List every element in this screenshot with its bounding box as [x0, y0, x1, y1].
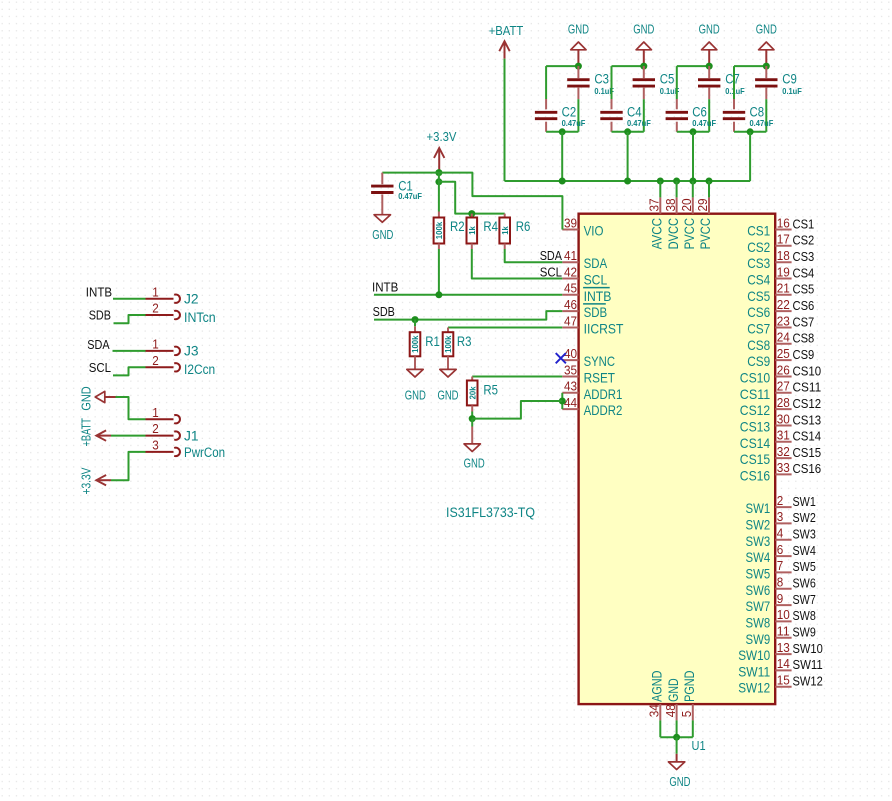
- power symbol +BATT (left): [79, 418, 111, 447]
- junction top of C7: [706, 63, 713, 70]
- power symbol +3.3V: [427, 130, 457, 172]
- net label CS16: [793, 462, 822, 476]
- net label CS11: [793, 381, 822, 395]
- svg-text:CS12: CS12: [740, 402, 771, 418]
- svg-text:13: 13: [777, 641, 790, 655]
- U1 pin 10 SW8: [746, 608, 792, 630]
- svg-text:SW11: SW11: [738, 663, 770, 679]
- svg-text:20: 20: [680, 198, 694, 211]
- svg-text:GND: GND: [633, 22, 654, 36]
- net label SW4: [793, 544, 816, 558]
- svg-text:C9: C9: [782, 72, 797, 87]
- svg-text:30: 30: [777, 412, 790, 426]
- C7 reference label: [725, 72, 740, 87]
- net label SW5: [793, 560, 816, 574]
- wire R2 bottom to INTB: [438, 244, 440, 295]
- svg-text:SDA: SDA: [87, 338, 110, 352]
- svg-text:100k: 100k: [443, 335, 453, 353]
- svg-text:11: 11: [777, 625, 790, 639]
- C6 reference label: [692, 104, 707, 119]
- U1 pin 25 CS9: [747, 347, 791, 369]
- C9 reference label: [782, 72, 797, 87]
- connector J1 pin 1: [146, 406, 180, 424]
- wire bus to pin 29: [708, 181, 710, 197]
- svg-text:+3.3V: +3.3V: [79, 467, 93, 494]
- svg-text:C5: C5: [660, 72, 675, 87]
- svg-text:2: 2: [152, 354, 159, 368]
- wire PGND down: [692, 720, 694, 737]
- svg-text:GND: GND: [464, 457, 485, 471]
- wire bus to pin 38: [676, 181, 678, 197]
- wire C3 bottom: [577, 99, 579, 132]
- svg-text:SW12: SW12: [738, 680, 770, 696]
- svg-text:100k: 100k: [434, 222, 444, 240]
- wire C6 top: [676, 66, 678, 99]
- net label CS2: [793, 234, 815, 248]
- wire R5 to ADDR1/ADDR2: [472, 401, 562, 419]
- svg-text:31: 31: [777, 429, 790, 443]
- connector J1 pin 2: [146, 422, 180, 440]
- net label SW7: [793, 593, 816, 607]
- ground symbol below C1: [372, 215, 393, 242]
- wire bottom rail C4-C5: [612, 131, 644, 133]
- junction bus x=692.9: [689, 178, 696, 185]
- capacitor C8: [723, 99, 745, 132]
- svg-text:ADDR2: ADDR2: [584, 402, 623, 418]
- junction R5 bottom: [469, 415, 476, 422]
- wire R5 bottom: [471, 405, 473, 418]
- net label CS5: [793, 283, 815, 297]
- svg-text:SCL: SCL: [89, 361, 111, 375]
- wire top rail C2-C3: [546, 65, 578, 67]
- svg-text:2: 2: [152, 302, 159, 316]
- C9 value label 0.1uF: [782, 86, 802, 96]
- C5 reference label: [660, 72, 675, 87]
- junction bus x=562.25: [559, 178, 566, 185]
- ground symbol below U1: [668, 754, 690, 789]
- capacitor C9: [755, 66, 777, 99]
- svg-text:44: 44: [564, 396, 577, 410]
- wire +3.3V to C1: [382, 172, 439, 174]
- wire R6 to SDA pin 41: [505, 244, 563, 263]
- svg-text:CS10: CS10: [740, 370, 771, 386]
- svg-text:2: 2: [777, 494, 784, 508]
- junction top of C3: [575, 63, 582, 70]
- svg-text:C7: C7: [725, 72, 740, 87]
- capacitor C1: [371, 173, 393, 215]
- svg-text:SDA: SDA: [540, 249, 563, 263]
- U1 reference label: [692, 738, 706, 753]
- svg-text:2: 2: [152, 422, 159, 436]
- wire J1.2 to +BATT: [111, 435, 146, 437]
- net label SCL (mid): [540, 266, 562, 280]
- capacitor C2: [535, 99, 557, 132]
- svg-text:+BATT: +BATT: [79, 418, 93, 447]
- svg-text:35: 35: [564, 363, 577, 377]
- U1 pin 48 GND: [664, 678, 681, 720]
- junction bottom of pair C4/C5: [624, 128, 631, 135]
- junction +3.3V node B: [435, 178, 442, 185]
- svg-text:SW6: SW6: [746, 582, 771, 598]
- net label CS6: [793, 299, 815, 313]
- svg-text:PVCC: PVCC: [697, 218, 713, 249]
- svg-text:CS1: CS1: [793, 217, 815, 231]
- net label CS14: [793, 430, 822, 444]
- svg-text:9: 9: [777, 592, 784, 606]
- svg-text:INTB: INTB: [372, 280, 398, 294]
- svg-text:J2: J2: [184, 291, 199, 306]
- U1 pin 40 SYNC: [562, 347, 615, 369]
- svg-text:GND: GND: [372, 228, 393, 242]
- capacitor C7: [698, 66, 720, 99]
- svg-text:4: 4: [777, 527, 784, 541]
- svg-text:17: 17: [777, 233, 790, 247]
- U1 pin 16 CS1: [747, 216, 791, 238]
- U1 pin 18 CS3: [747, 249, 791, 271]
- wire +BATT bus horizontal: [505, 180, 751, 182]
- resistor R6: [499, 214, 510, 244]
- GND power symbol above C5: [633, 22, 654, 66]
- svg-text:7: 7: [777, 559, 784, 573]
- svg-text:23: 23: [777, 314, 790, 328]
- svg-text:8: 8: [777, 576, 784, 590]
- wire SDA to J3.1: [113, 350, 146, 352]
- wire J1.1 to GND: [116, 397, 146, 419]
- svg-text:48: 48: [664, 704, 678, 717]
- svg-text:CS13: CS13: [793, 413, 822, 427]
- svg-text:1k: 1k: [467, 226, 477, 235]
- svg-text:27: 27: [777, 380, 790, 394]
- junction R4 top: [468, 210, 475, 217]
- svg-text:1: 1: [152, 406, 159, 420]
- U1 pin 35 RSET: [562, 363, 615, 385]
- connector J2 pin 1: [146, 285, 180, 303]
- U1 pin 39 VIO: [562, 216, 603, 238]
- svg-text:SDB: SDB: [373, 305, 395, 319]
- U1 pin 41 SDA: [562, 249, 607, 271]
- connector J3 pin 1: [146, 338, 180, 356]
- svg-text:SCL: SCL: [540, 266, 562, 280]
- svg-text:CS9: CS9: [793, 348, 815, 362]
- U1 pin 32 CS15: [740, 445, 792, 467]
- svg-text:SW4: SW4: [746, 549, 771, 565]
- capacitor C5: [633, 66, 655, 99]
- wire +3.3V down to R2: [438, 173, 440, 212]
- C3 value label 0.1uF: [594, 86, 614, 96]
- svg-text:GND: GND: [669, 775, 690, 789]
- svg-text:100k: 100k: [410, 335, 420, 353]
- wire drop C8/C9 to +BATT bus: [749, 132, 751, 181]
- connector J3 pin 2: [146, 354, 180, 372]
- wire drop C4/C5 to +BATT bus: [627, 132, 629, 181]
- svg-text:CS4: CS4: [747, 272, 770, 288]
- J3 value label I2Ccn: [184, 362, 215, 377]
- svg-text:29: 29: [696, 198, 710, 211]
- U1 pin 15 SW12: [738, 674, 791, 696]
- power symbol +BATT: [489, 24, 524, 59]
- net label SW11: [793, 658, 823, 672]
- svg-text:18: 18: [777, 249, 790, 263]
- svg-text:0.1uF: 0.1uF: [782, 86, 802, 96]
- svg-text:SW2: SW2: [793, 511, 816, 525]
- junction SDB/R1: [412, 316, 419, 323]
- svg-text:25: 25: [777, 347, 790, 361]
- U1 pin 23 CS7: [747, 314, 791, 336]
- R4 reference label: [483, 219, 498, 234]
- svg-text:SW1: SW1: [793, 495, 816, 509]
- svg-text:CS3: CS3: [747, 255, 770, 271]
- U1 pin 20 PVCC: [680, 197, 697, 249]
- svg-text:PVCC: PVCC: [681, 218, 697, 249]
- wire bottom rail C6-C7: [677, 131, 709, 133]
- net label CS3: [793, 250, 815, 264]
- svg-text:GND: GND: [568, 22, 589, 36]
- U1 pin 2 SW1: [746, 494, 792, 516]
- svg-text:CS5: CS5: [793, 283, 815, 297]
- wire bus to pin 37: [659, 181, 661, 197]
- svg-text:SDB: SDB: [89, 309, 111, 323]
- svg-text:10: 10: [777, 608, 790, 622]
- net label CS12: [793, 397, 822, 411]
- wire INTB to J2.1: [113, 298, 146, 300]
- op-amp U1 IS31FL3733-TQ body: [579, 214, 776, 704]
- U1 pin 4 SW3: [746, 527, 792, 549]
- U1 pin 45 INTB: [562, 282, 611, 304]
- svg-text:J3: J3: [184, 344, 199, 359]
- U1 pin 24 CS8: [747, 331, 791, 353]
- svg-text:SW10: SW10: [793, 642, 823, 656]
- resistor R3: [443, 328, 454, 357]
- wire top rail C4-C5: [612, 65, 644, 67]
- net label SW12: [793, 675, 823, 689]
- capacitor C4: [600, 99, 622, 132]
- svg-text:IICRST: IICRST: [584, 321, 624, 337]
- J2 value label INTcn: [184, 310, 216, 325]
- C4 value label 0.47uF: [627, 118, 651, 128]
- U1 pin 27 CS11: [740, 380, 792, 402]
- net label SW2: [793, 511, 816, 525]
- connector J2 pin 2: [146, 302, 180, 320]
- net label SW8: [793, 609, 816, 623]
- svg-text:SDA: SDA: [584, 255, 608, 271]
- svg-text:GND: GND: [405, 389, 426, 403]
- svg-text:CS1: CS1: [747, 223, 770, 239]
- svg-text:24: 24: [777, 331, 790, 345]
- U1 pin 3 SW2: [746, 510, 792, 532]
- U1 pin 9 SW7: [746, 592, 792, 614]
- U1 pin 31 CS14: [740, 429, 792, 451]
- svg-text:GND: GND: [756, 22, 777, 36]
- svg-text:RSET: RSET: [584, 370, 616, 386]
- wire ADDR tie vertical: [561, 393, 563, 409]
- svg-text:J1: J1: [184, 428, 199, 443]
- svg-text:38: 38: [664, 198, 678, 211]
- svg-text:CS5: CS5: [747, 288, 770, 304]
- svg-text:CS13: CS13: [740, 419, 771, 435]
- svg-text:CS11: CS11: [740, 386, 771, 402]
- svg-text:SYNC: SYNC: [584, 353, 615, 369]
- svg-text:R2: R2: [450, 219, 465, 234]
- wire C4 top: [611, 66, 613, 99]
- J3 reference label: [184, 344, 199, 359]
- wire SDB to J2.2: [114, 315, 146, 323]
- svg-text:CS6: CS6: [747, 304, 770, 320]
- U1 pin 11 SW9: [746, 625, 792, 647]
- svg-text:1k: 1k: [500, 226, 510, 235]
- C8 value label 0.47uF: [750, 118, 774, 128]
- resistor R1: [410, 320, 421, 357]
- svg-text:CS7: CS7: [747, 321, 770, 337]
- capacitor C3: [567, 66, 589, 99]
- net label CS13: [793, 413, 822, 427]
- svg-text:22: 22: [777, 298, 790, 312]
- svg-text:CS7: CS7: [793, 315, 815, 329]
- svg-text:CS14: CS14: [793, 430, 822, 444]
- net label SW9: [793, 626, 816, 640]
- svg-text:3: 3: [777, 510, 784, 524]
- svg-text:3: 3: [152, 439, 159, 453]
- power symbol +3.3V (left): [79, 467, 111, 494]
- svg-text:28: 28: [777, 396, 790, 410]
- J2 reference label: [184, 291, 199, 306]
- resistor R5: [467, 377, 478, 406]
- U1 pin 34 AGND: [648, 671, 665, 721]
- capacitor C6: [666, 99, 688, 132]
- wire R4 to SCL pin 42: [472, 244, 563, 279]
- junction top of C5: [640, 63, 647, 70]
- wire top rail C8-C9: [734, 65, 766, 67]
- wire INTB to pin 45: [374, 294, 562, 296]
- net label CS8: [793, 332, 815, 346]
- svg-text:SW3: SW3: [793, 528, 816, 542]
- svg-text:20k: 20k: [467, 386, 477, 399]
- svg-text:INTcn: INTcn: [184, 310, 216, 325]
- U1 pin 13 SW10: [738, 641, 791, 663]
- wire AGND down: [659, 720, 661, 737]
- svg-text:32: 32: [777, 445, 790, 459]
- svg-text:PwrCon: PwrCon: [184, 445, 225, 460]
- svg-text:42: 42: [564, 265, 577, 279]
- svg-text:SW12: SW12: [793, 675, 823, 689]
- svg-text:CS16: CS16: [793, 462, 822, 476]
- resistor R4: [467, 214, 478, 244]
- C6 value label 0.47uF: [692, 118, 716, 128]
- U1 pin 37 AVCC: [648, 197, 665, 249]
- R3 reference label: [457, 334, 472, 349]
- svg-text:0.47uF: 0.47uF: [398, 191, 422, 201]
- svg-text:34: 34: [648, 704, 662, 717]
- net label INTB (mid): [372, 280, 398, 294]
- U1 pin 8 SW6: [746, 576, 792, 598]
- svg-text:CS10: CS10: [793, 364, 822, 378]
- svg-text:CS11: CS11: [793, 381, 822, 395]
- svg-text:SW8: SW8: [746, 614, 771, 630]
- svg-text:41: 41: [564, 249, 577, 263]
- ground symbol below R3: [437, 356, 458, 402]
- svg-text:45: 45: [564, 282, 577, 296]
- net label CS1: [793, 217, 815, 231]
- junction top of C9: [763, 63, 770, 70]
- wire J1.3 to +3.3V: [111, 452, 146, 480]
- wire bottom gnd tie: [660, 736, 693, 738]
- svg-text:33: 33: [777, 461, 790, 475]
- svg-text:+BATT: +BATT: [489, 24, 524, 38]
- U1 pin 28 CS12: [740, 396, 792, 418]
- J1 value label PwrCon: [184, 445, 225, 460]
- C1 reference label: [398, 179, 413, 194]
- svg-text:SW7: SW7: [746, 598, 771, 614]
- net label SW6: [793, 577, 816, 591]
- svg-text:0.47uF: 0.47uF: [692, 118, 716, 128]
- ground symbol below R1: [405, 356, 426, 402]
- svg-text:21: 21: [777, 282, 790, 296]
- wire drop C6/C7 to +BATT bus: [692, 132, 694, 181]
- U1 pin 21 CS5: [747, 282, 791, 304]
- svg-text:0.47uF: 0.47uF: [750, 118, 774, 128]
- svg-text:14: 14: [777, 657, 790, 671]
- U1 value label IS31FL3733-TQ: [446, 505, 535, 520]
- svg-text:19: 19: [777, 265, 790, 279]
- svg-text:46: 46: [564, 298, 577, 312]
- svg-text:SDB: SDB: [584, 304, 608, 320]
- U1 pin 7 SW5: [746, 559, 792, 581]
- svg-text:39: 39: [564, 216, 577, 230]
- svg-text:GND: GND: [699, 22, 720, 36]
- U1 pin 17 CS2: [747, 233, 791, 255]
- wire +3.3V to R4/R6: [439, 182, 505, 214]
- svg-text:GND: GND: [79, 386, 93, 410]
- net label CS9: [793, 348, 815, 362]
- svg-text:CS16: CS16: [740, 467, 771, 483]
- wire bottom rail C2-C3: [546, 131, 578, 133]
- svg-text:CS15: CS15: [793, 446, 822, 460]
- svg-text:VIO: VIO: [584, 223, 604, 239]
- svg-text:47: 47: [564, 314, 577, 328]
- GND power symbol above C9: [756, 22, 777, 66]
- junction INTB/R2: [435, 291, 442, 298]
- net label SCL (left): [89, 361, 111, 375]
- junction ADDR tie: [559, 398, 566, 405]
- svg-text:SW9: SW9: [793, 626, 816, 640]
- svg-text:C3: C3: [594, 72, 609, 87]
- wire RSET pin 35 to R5: [472, 376, 562, 378]
- svg-text:SCL: SCL: [584, 272, 608, 288]
- wire C9 bottom: [765, 99, 767, 132]
- svg-text:SW6: SW6: [793, 577, 816, 591]
- svg-text:43: 43: [564, 380, 577, 394]
- wire C2 top: [545, 66, 547, 99]
- svg-text:SW2: SW2: [746, 516, 771, 532]
- svg-text:CS9: CS9: [747, 353, 770, 369]
- junction bottom gnd: [673, 734, 680, 741]
- C5 value label 0.1uF: [660, 86, 680, 96]
- svg-text:5: 5: [680, 711, 694, 718]
- U1 pin 42 SCL: [562, 265, 607, 287]
- U1 pin 19 CS4: [747, 265, 791, 287]
- svg-text:6: 6: [777, 543, 784, 557]
- wire bus to pin 20: [692, 181, 694, 197]
- C8 reference label: [750, 104, 765, 119]
- svg-text:1: 1: [152, 285, 159, 299]
- net label SW1: [793, 495, 816, 509]
- C1 value label 0.47uF: [398, 191, 422, 201]
- svg-text:GND: GND: [665, 678, 681, 702]
- svg-text:SW9: SW9: [746, 631, 771, 647]
- svg-text:CS12: CS12: [793, 397, 822, 411]
- svg-text:R3: R3: [457, 334, 472, 349]
- net label INTB (left): [86, 286, 112, 300]
- net label SW3: [793, 528, 816, 542]
